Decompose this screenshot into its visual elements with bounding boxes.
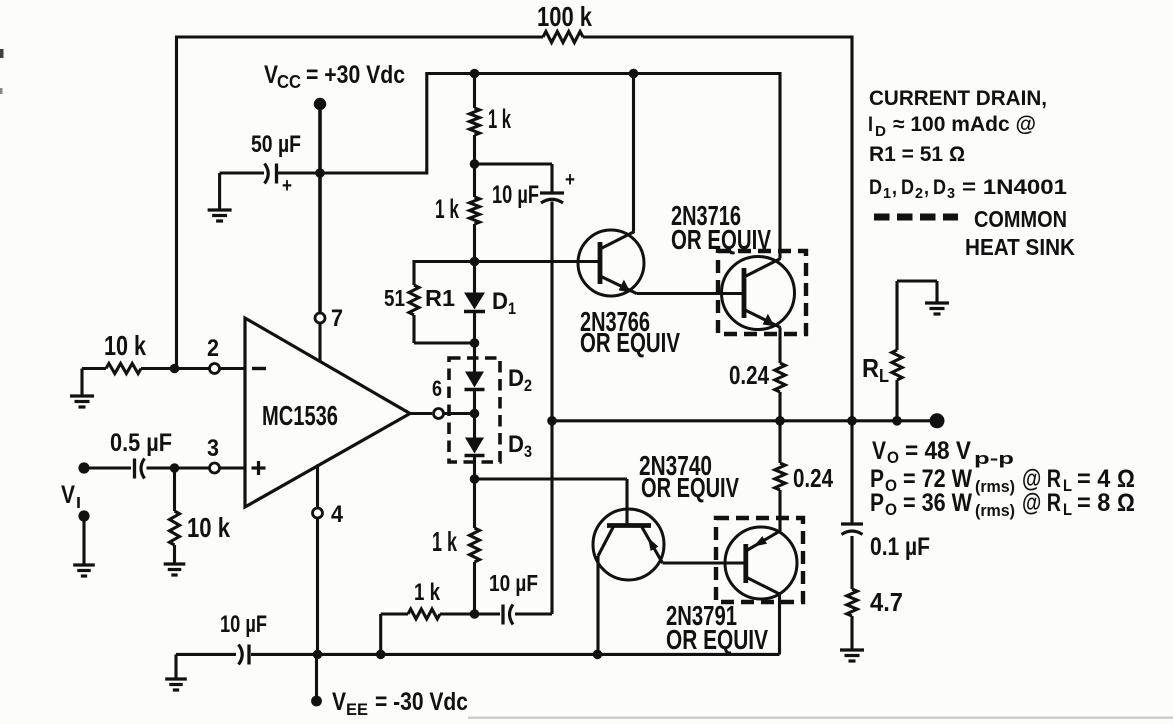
terminal input Vi	[78, 462, 89, 473]
junction node B below D3	[470, 474, 480, 484]
svg-text:0.1 µF: 0.1 µF	[870, 533, 930, 561]
wire Q3 collector down	[596, 556, 599, 654]
svg-text:3: 3	[947, 185, 955, 202]
label D3	[508, 431, 532, 461]
label 4.7	[870, 587, 903, 617]
wire VEE stub	[315, 654, 318, 696]
wire 10k to pin2	[141, 367, 210, 370]
svg-text:R: R	[862, 353, 879, 383]
junction bias node A	[470, 257, 480, 267]
capacitor 0.1 uF	[841, 524, 863, 535]
svg-text:I: I	[76, 495, 81, 512]
svg-text:OR EQUIV: OR EQUIV	[666, 624, 768, 655]
dashed heat-sink box D2 D3	[449, 358, 500, 462]
svg-text:O: O	[885, 500, 897, 519]
label OR EQUIV Q2	[671, 224, 771, 255]
label 100 k	[537, 1, 592, 32]
wire D2 cathode	[473, 390, 476, 414]
label 50 uF	[251, 131, 301, 158]
wire D1 anode	[473, 262, 476, 294]
ground 50uF	[208, 210, 232, 221]
svg-text:≈ 100 mAdc @: ≈ 100 mAdc @	[893, 113, 1036, 136]
junction 10uF line / output	[547, 416, 557, 426]
svg-text:COMMON: COMMON	[974, 206, 1067, 232]
wire top feedback right segment	[583, 35, 852, 38]
label 1 k fourth	[414, 579, 440, 606]
svg-text:1 k: 1 k	[414, 579, 440, 606]
wire 1k2 bottom lead	[473, 224, 476, 262]
svg-text:CC: CC	[277, 72, 301, 92]
svg-text:,: ,	[892, 176, 897, 199]
junction pin4/rail	[313, 650, 323, 660]
junction output pin6 node	[470, 409, 480, 419]
wire 1k to node	[473, 135, 476, 164]
label 2N3766	[580, 306, 650, 337]
label MC1536	[262, 400, 338, 431]
wire D1 cathode	[473, 312, 476, 344]
resistor 1 k third	[470, 528, 480, 562]
capacitor 10 uF bottom left	[239, 645, 250, 665]
terminal VCC	[314, 98, 326, 110]
svg-text:D: D	[508, 431, 524, 458]
wire output down	[850, 421, 853, 524]
label pin 3	[207, 435, 219, 462]
svg-text:HEAT SINK: HEAT SINK	[965, 234, 1075, 260]
svg-text:D: D	[901, 176, 914, 199]
svg-text:= +30 Vdc: = +30 Vdc	[306, 61, 405, 89]
dashed heat-sink box Q2	[718, 251, 806, 334]
svg-text:CURRENT DRAIN,: CURRENT DRAIN,	[869, 87, 1047, 110]
label OR EQUIV Q4	[666, 624, 768, 655]
svg-text:(rms): (rms)	[975, 501, 1015, 520]
wire feedback left vertical	[175, 36, 178, 369]
wire Vi lower to ground	[82, 521, 85, 565]
svg-text:3: 3	[524, 442, 532, 461]
label 10 uF bottom middle	[489, 570, 538, 596]
wire D3 anode	[473, 414, 476, 438]
ground RL	[925, 303, 949, 314]
svg-text:L: L	[1063, 500, 1072, 519]
label Vi	[61, 481, 81, 512]
wire node A to R1	[414, 260, 475, 263]
label 2N3716	[671, 200, 741, 231]
junction 1k / 10uF node	[470, 159, 480, 169]
junction bottom bias node	[470, 609, 480, 619]
op-amp U1 MC1536 triangle	[245, 318, 410, 507]
label COMMON	[974, 206, 1067, 232]
svg-text:2: 2	[207, 335, 219, 362]
svg-text:V: V	[332, 688, 346, 716]
transistor Q1 2N3766	[578, 230, 644, 296]
svg-text:4.7: 4.7	[870, 587, 903, 617]
label minus input	[252, 367, 266, 370]
dashed legend common heat sink	[874, 214, 958, 221]
svg-text:@ R: @ R	[1022, 489, 1061, 517]
resistor 1 k upper	[470, 108, 480, 135]
svg-text:R1: R1	[425, 285, 455, 311]
svg-text:R1 = 51 Ω: R1 = 51 Ω	[869, 143, 965, 166]
wire D3 cathode	[473, 456, 476, 480]
svg-text:2: 2	[524, 376, 532, 395]
wire R1 bottom lead	[414, 315, 475, 343]
svg-text:P: P	[870, 489, 884, 517]
junction RL/output	[892, 416, 902, 426]
junction Q3 collector/rail	[593, 650, 603, 660]
wire Q1 emitter to Q2 base	[637, 292, 745, 295]
label R1 = 51 ohm	[869, 143, 965, 166]
pin 7 circle	[315, 313, 325, 323]
resistor 4.7	[847, 589, 857, 616]
pin 2 circle	[210, 364, 220, 374]
svg-text:OR EQUIV: OR EQUIV	[641, 472, 739, 503]
resistor R1 51	[409, 285, 419, 315]
svg-text:p-p: p-p	[974, 449, 1014, 468]
resistor 100 k	[543, 32, 583, 43]
label 1 k third	[432, 526, 457, 557]
resistor 0.24 upper	[775, 363, 785, 392]
scan artifact left edge marks	[0, 49, 4, 94]
svg-text:L: L	[1063, 476, 1072, 495]
svg-text:1 k: 1 k	[435, 194, 460, 224]
svg-text:MC1536: MC1536	[262, 400, 338, 431]
svg-text:D: D	[492, 288, 508, 315]
wire RL to ground	[897, 281, 937, 350]
svg-text:EE: EE	[346, 700, 368, 719]
ground bottom left	[165, 679, 187, 690]
svg-text:L: L	[879, 366, 889, 386]
svg-text:7: 7	[331, 305, 343, 332]
svg-text:+: +	[282, 175, 292, 197]
label 1 k second	[435, 194, 460, 224]
wire 1k top lead	[473, 74, 476, 109]
svg-text:D: D	[869, 176, 882, 199]
svg-text:D: D	[933, 176, 946, 199]
wire top feedback left segment	[177, 35, 544, 38]
wire VCC to 50uF	[278, 171, 321, 174]
wire Q2 collector to rail	[778, 72, 781, 259]
pin 3 circle	[210, 463, 220, 473]
label Po = 72W line	[870, 465, 1135, 496]
resistor 1 k second	[470, 197, 480, 224]
svg-text:(rms): (rms)	[975, 477, 1015, 496]
label 0.1 uF	[870, 533, 930, 561]
label VCC = +30 Vdc	[264, 61, 405, 92]
label OR EQUIV Q3	[641, 472, 739, 503]
wire Vi to cap	[90, 466, 132, 469]
label + of 10uF upper	[565, 169, 575, 191]
svg-text:1: 1	[883, 185, 891, 202]
wire cap to pin3	[147, 466, 210, 469]
terminal Vi lower	[78, 510, 89, 521]
label pin 2	[207, 335, 219, 362]
svg-text:6: 6	[432, 376, 442, 401]
label HEAT SINK	[965, 234, 1075, 260]
svg-text:V: V	[61, 481, 75, 509]
wire RL top	[895, 380, 898, 421]
wire 1k3 bottom lead	[473, 562, 476, 614]
wire 10uF long vertical	[550, 202, 553, 615]
svg-text:= 36 W: = 36 W	[903, 489, 972, 517]
label 2N3791	[666, 600, 737, 631]
svg-text:10 µF: 10 µF	[492, 181, 539, 209]
wire 10k gnd lead	[82, 369, 106, 397]
capacitor 50 uF	[265, 164, 277, 184]
svg-text:= 1N4001: = 1N4001	[962, 176, 1067, 199]
label 10 uF upper	[492, 181, 539, 209]
svg-text:1 k: 1 k	[432, 526, 457, 557]
svg-text:4: 4	[331, 501, 344, 528]
wire R1 top lead	[412, 260, 415, 285]
wire Q3 emitter to Q4 base	[663, 561, 746, 564]
pin 4 circle	[313, 508, 323, 518]
label R1	[425, 285, 455, 311]
label 0.5 uF	[110, 429, 172, 457]
svg-text:50 µF: 50 µF	[251, 131, 301, 158]
transistor Q4 2N3791	[725, 527, 797, 599]
junction D1/R1 node	[470, 338, 480, 348]
diode D2	[465, 372, 485, 390]
wire top supply rail	[425, 72, 780, 75]
junction 0.24/output	[775, 416, 785, 426]
wire node B down	[473, 479, 476, 528]
label D2	[508, 365, 532, 395]
svg-text:10 k: 10 k	[104, 330, 146, 361]
label VEE = -30 Vdc	[332, 688, 468, 719]
diode D1	[464, 293, 485, 312]
wire 0.24 upper to output	[778, 392, 781, 421]
svg-text:10 µF: 10 µF	[220, 611, 267, 638]
svg-text:0.24: 0.24	[793, 463, 833, 493]
svg-text:1: 1	[508, 299, 516, 318]
dashed heat-sink box Q4	[716, 518, 803, 602]
svg-text:1 k: 1 k	[488, 104, 512, 134]
svg-text:10 k: 10 k	[187, 512, 230, 543]
svg-text:2: 2	[915, 185, 923, 202]
resistor RL	[892, 350, 902, 380]
wire output to 0.24 lower	[778, 421, 781, 463]
junction feedback/output	[847, 416, 857, 426]
wire 10k2 top lead	[173, 468, 176, 511]
pin 6 circle	[434, 409, 444, 419]
label 0.24 upper	[729, 360, 769, 390]
wire VCC node to rail riser	[320, 74, 427, 175]
capacitor 10 uF bottom middle	[503, 605, 513, 625]
label CURRENT DRAIN,	[869, 87, 1047, 110]
label RL	[862, 353, 889, 386]
svg-text:0.5 µF: 0.5 µF	[110, 429, 172, 457]
label Po = 36W line	[870, 489, 1135, 520]
label 0.24 lower	[793, 463, 833, 493]
label pin 6	[432, 376, 442, 401]
wire node B to Q3 base	[475, 479, 628, 526]
wire Q4 collector down	[778, 594, 781, 654]
svg-text:3: 3	[207, 435, 219, 462]
transistor Q3 2N3740	[593, 509, 664, 580]
wire Q1 collector to rail	[632, 74, 635, 232]
transistor Q2 2N3716	[722, 257, 795, 330]
svg-text:100 k: 100 k	[537, 1, 592, 32]
scan artifact bottom line	[468, 717, 1173, 719]
svg-text:= 8 Ω: = 8 Ω	[1077, 489, 1135, 517]
wire 1k4 leads	[381, 614, 475, 654]
ground Zobel	[840, 650, 864, 661]
label ID = 100 mAdc	[868, 113, 1036, 140]
svg-text:D: D	[508, 365, 524, 392]
wire Q2 emitter down	[778, 328, 781, 364]
label + of 50 uF	[282, 175, 292, 197]
svg-text:51: 51	[384, 285, 405, 311]
svg-text:0.24: 0.24	[729, 360, 769, 390]
diode D3	[465, 438, 485, 456]
label 10 k input	[104, 330, 146, 361]
terminal output	[930, 413, 945, 428]
label 2N3740	[639, 450, 712, 481]
junction VCC node	[315, 168, 325, 178]
junction pin3/10k	[170, 463, 180, 473]
wire pin2 lead	[220, 367, 246, 370]
svg-text:O: O	[887, 448, 899, 467]
wire bottom-left ground stub	[174, 654, 177, 679]
label D1	[492, 288, 516, 318]
ground Vi	[73, 565, 95, 576]
resistor 10 k input	[106, 364, 141, 374]
wire bottom rail right	[251, 653, 780, 656]
svg-text:O: O	[885, 476, 897, 495]
wire 10k2 bottom lead	[173, 545, 176, 564]
wire pin4 stub	[316, 465, 319, 655]
ground 10k input	[70, 396, 94, 407]
ground 10k lower	[164, 564, 186, 575]
capacitor 0.5 uF	[135, 459, 145, 479]
wire VCC vertical	[318, 104, 322, 313]
wire bottom rail left	[176, 653, 236, 656]
junction 1k4/rail	[376, 650, 386, 660]
wire feedback right vertical	[850, 36, 853, 421]
wire 4.7 to ground	[850, 616, 853, 650]
label 10 uF bottom left	[220, 611, 267, 638]
svg-text:I: I	[868, 113, 873, 136]
wire 0.24 lower to Q4 emitter	[778, 490, 781, 531]
label OR EQUIV Q1	[580, 327, 680, 358]
label 10 k lower	[187, 512, 230, 543]
wire 0.1uF to 4.7	[850, 536, 853, 589]
svg-text:+: +	[565, 169, 575, 191]
svg-text:OR EQUIV: OR EQUIV	[580, 327, 680, 358]
capacitor 10 uF upper	[540, 193, 564, 203]
junction Q1 collector rail	[629, 69, 639, 79]
wire Q1 base	[475, 260, 601, 263]
label pin 7	[331, 305, 343, 332]
label Vo = 48 Vp-p	[872, 437, 1014, 468]
wire node to 10uF	[475, 164, 553, 193]
terminal VEE	[311, 696, 322, 707]
label 51	[384, 285, 405, 311]
wire node to cap2	[475, 612, 501, 615]
svg-text:= 48 V: = 48 V	[905, 437, 971, 465]
wire pin7 stub	[318, 323, 321, 362]
label 1 k upper	[488, 104, 512, 134]
label plus input	[252, 461, 266, 475]
svg-text:V: V	[872, 437, 886, 465]
junction feedback/pin2	[170, 364, 180, 374]
wire pin3 lead	[220, 466, 246, 469]
junction rail-1k	[470, 69, 480, 79]
resistor 0.24 lower	[775, 463, 785, 490]
wire D2 anode	[473, 343, 476, 372]
wire 1k2 top lead	[473, 164, 476, 197]
label D1 D2 D3 = 1N4001	[869, 176, 1067, 202]
svg-text:= -30 Vdc: = -30 Vdc	[375, 688, 468, 716]
resistor 1 k fourth	[408, 609, 440, 619]
wire 50uF to ground	[220, 173, 264, 210]
svg-text:,: ,	[924, 176, 929, 199]
resistor 10 k to ground	[170, 511, 180, 545]
svg-text:D: D	[875, 123, 886, 140]
wire pin6 lead	[410, 412, 475, 415]
svg-text:10 µF: 10 µF	[489, 570, 538, 596]
wire cap2 to vertical	[515, 612, 552, 615]
wire output rail	[552, 419, 937, 422]
label pin 4	[331, 501, 344, 528]
